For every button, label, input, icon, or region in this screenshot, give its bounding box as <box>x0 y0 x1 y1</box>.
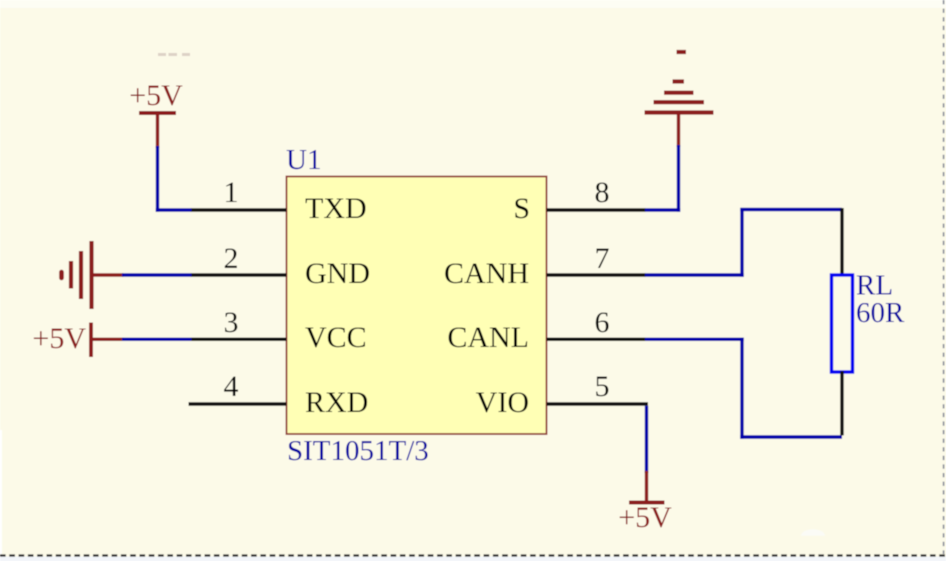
svg-text:+5V: +5V <box>129 79 183 112</box>
svg-text:5: 5 <box>595 370 610 403</box>
svg-text:CANL: CANL <box>447 321 529 354</box>
pin 7 stub <box>547 273 646 276</box>
pin 8 stub <box>547 208 646 211</box>
pin 6 stub <box>547 338 646 341</box>
pin 4 stub <box>189 402 287 405</box>
wire CANL bottom horizontal <box>740 435 842 438</box>
svg-text:SIT1051T/3: SIT1051T/3 <box>287 435 429 467</box>
svg-text:+5V: +5V <box>32 322 86 355</box>
faint white smudge bottom-right <box>801 529 825 536</box>
pin 5 stub <box>547 402 649 405</box>
wire pin7 horizontal (CANH) <box>645 273 744 276</box>
svg-text:60R: 60R <box>856 297 905 329</box>
wire CANH vertical up <box>740 208 743 277</box>
wire CANL vertical down <box>740 338 743 439</box>
svg-text:8: 8 <box>595 176 610 209</box>
wire pin5 vertical <box>645 406 648 473</box>
svg-text:2: 2 <box>224 242 239 275</box>
bottom white band below sheet border <box>0 557 946 561</box>
left white edge strip <box>0 430 2 554</box>
svg-text:CANH: CANH <box>444 257 529 290</box>
wire pin2 <box>122 273 192 276</box>
sheet border dashed bottom <box>0 554 946 556</box>
wire pin1 vertical <box>156 146 159 212</box>
wire pin1 horizontal <box>156 208 192 211</box>
ground symbol (signal ground, left of pin 2) <box>62 241 124 309</box>
wire RL top vertical (black) <box>840 208 843 276</box>
wire RL bottom vertical (black) <box>840 371 843 435</box>
svg-text:3: 3 <box>224 306 239 339</box>
pin 2 stub <box>191 273 287 276</box>
pin 1 stub <box>191 208 287 211</box>
svg-text:7: 7 <box>595 242 610 275</box>
wire pin3 <box>122 338 192 341</box>
svg-text:GND: GND <box>305 257 370 290</box>
earth ground symbol (top, above pin 8) <box>645 52 714 147</box>
svg-text:TXD: TXD <box>305 192 367 225</box>
svg-text:RXD: RXD <box>305 386 368 419</box>
wire pin8 horizontal <box>645 208 680 211</box>
pin 3 stub <box>191 338 287 341</box>
svg-text:6: 6 <box>595 306 610 339</box>
wire CANH top horizontal <box>740 208 842 211</box>
svg-text:4: 4 <box>224 370 239 403</box>
faint artifact dashes top-left <box>158 53 190 56</box>
svg-text:1: 1 <box>224 176 239 209</box>
power port +5V (top left) <box>129 79 183 148</box>
power port +5V (left of pin 3) <box>32 322 123 357</box>
wire pin6 horizontal (CANL) <box>645 338 744 341</box>
wire pin8 vertical <box>677 145 680 212</box>
top white band <box>0 0 946 8</box>
svg-text:+5V: +5V <box>618 501 672 534</box>
svg-text:U1: U1 <box>286 144 321 176</box>
svg-text:S: S <box>513 192 530 225</box>
op-amp U1 body (CAN transceiver IC) <box>287 177 547 435</box>
svg-text:VIO: VIO <box>476 386 529 419</box>
power port +5V (bottom, below pin 5) <box>618 471 672 534</box>
resistor RL <box>832 275 853 372</box>
sheet border dashed right <box>943 0 945 554</box>
svg-text:VCC: VCC <box>305 321 367 354</box>
